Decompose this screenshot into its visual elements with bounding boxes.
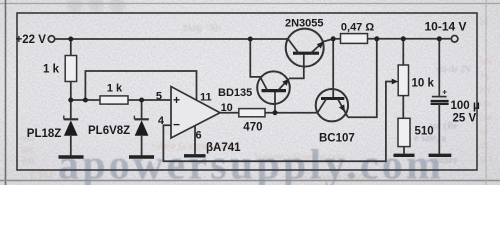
svg-text:βA741: βA741 [206,142,241,154]
svg-text:PL6V8Z: PL6V8Z [88,125,130,137]
ground (PL18Z) [59,155,84,158]
svg-text:5: 5 [156,91,162,103]
potentiometer 10k [398,65,408,96]
svg-text:PM.: PM. [22,156,37,166]
arrowhead pot wiper [392,79,399,85]
svg-text:510: 510 [415,126,434,138]
BC107 collector diagonal [318,99,327,113]
ground (capacitor) [429,154,452,157]
junction node: output / BC107 emitter [374,36,379,41]
svg-text:+22 V: +22 V [16,34,47,46]
zener PL6V8Z cathode bar [134,118,148,120]
faint round bleed blobs, top left [67,0,125,13]
2N3055 emitter diagonal [311,39,333,53]
svg-text:stă de 2V: stă de 2V [436,65,472,75]
output terminal 10-14V [451,36,458,43]
wire: BD135 emitter to 2N3055 base [289,53,304,78]
svg-text:BD135: BD135 [218,87,252,99]
svg-text:100 μ: 100 μ [451,100,480,112]
2N3055 collector diagonal [288,39,299,53]
svg-text:10: 10 [221,102,233,114]
wire: rail drop to pot [402,39,404,65]
junction node: output / pot [401,36,406,41]
input terminal +22V [48,36,54,42]
resistor 1k (series from +22V) [65,56,76,82]
BC107 base bar [321,97,344,100]
junction node: rail / R1 [68,37,73,42]
transistor Q2 BD135 circle [257,71,290,104]
wire: R1 to node A [70,82,72,101]
svg-text:+: + [173,93,180,107]
svg-text:−: − [173,118,180,132]
svg-text:în: în [479,140,489,151]
junction node: output / capacitor [437,36,442,41]
svg-text:11: 11 [200,91,212,103]
resistor 1k (to reference zener) [100,96,128,104]
wire: node A branch up to op-amp pin 11 [85,71,196,100]
wire: 470 to BC107 collector [265,112,318,114]
wire: BC107 emitter to output rail [348,39,377,118]
ground (op-amp pin 6) [184,154,206,157]
junction node A (18V) [68,98,73,103]
BD135 emitter [278,79,289,91]
zener PL18Z cathode bar [64,118,78,120]
junction node: pin11 feed [83,98,88,103]
arrowhead BC107 emitter [339,104,345,112]
scan page-edge lines [0,3,500,5]
zener PL6V8Z stem [141,100,143,119]
resistor 0,47 ohm [341,34,368,44]
transistor Q1 2N3055 circle [286,29,324,67]
zener PL18Z stem [70,100,72,119]
svg-text:PL18Z: PL18Z [27,128,62,140]
junction node: rail / BD135 collector [248,37,253,42]
schematic frame border [17,13,477,170]
arrowhead BD135 emitter [282,79,289,86]
svg-text:25 V: 25 V [453,113,477,125]
wire: pin 6 to ground [194,126,196,155]
junction node: BD135 base / 470 [273,110,278,115]
svg-text:4: 4 [158,115,165,127]
wire: capacitor to ground [438,104,440,154]
svg-text:1 k: 1 k [107,82,123,94]
svg-text:10-14 V: 10-14 V [425,20,467,34]
svg-text:10 k: 10 k [412,78,435,90]
resistor 470 [239,109,265,117]
wire: 510 to ground [403,147,405,154]
zener PL18Z anode triangle [64,120,78,136]
svg-text:blaţi ’Sb: blaţi ’Sb [183,22,221,34]
svg-text:2N3055: 2N3055 [285,17,324,29]
svg-text:6: 6 [195,130,201,142]
capacitor + mark [443,90,447,94]
zener PL6V8Z anode lead [141,136,143,156]
capacitor C1 100u plates [432,96,447,98]
svg-text:1 k: 1 k [43,64,60,76]
wire: 1k to pin 5 [128,99,171,101]
svg-text:ui: ui [480,126,488,137]
wire: BD135 base drop [274,91,276,113]
2N3055 base bar [293,52,319,55]
svg-text:BC107: BC107 [319,133,355,145]
wire: +22V rail to 2N3055 collector [55,38,288,40]
resistor 510 [398,118,410,146]
bleed-through ghost text from page reverse [20,17,493,183]
wire: BC107 base drop [332,39,334,99]
ground (510) [394,154,415,157]
junction node B (6.8V ref) [139,98,144,103]
arrowhead 2N3055 emitter [317,42,324,49]
wire: pin 4 feedback run to pot wiper [163,82,392,162]
wire: rail drop to capacitor [438,39,440,96]
wire: rail drop to BD135 collector [250,39,267,90]
zener PL18Z anode lead [70,136,72,156]
wire: rail drop to R1 [70,39,72,56]
BD135 base bar [262,89,287,92]
wire: emitter node to 0,47 [333,38,340,40]
op-amp U1 βA741 triangle [171,87,220,139]
wire: node A row [71,99,100,101]
svg-text:470: 470 [243,121,262,133]
svg-text:bl: bl [480,17,488,28]
svg-text:0,47 Ω: 0,47 Ω [341,21,374,33]
ground (PL6V8Z) [129,155,154,158]
wire: pot to 510 [402,96,404,119]
transistor Q3 BC107 circle [316,89,348,121]
wire: pin 10 output to 470 [220,112,239,114]
zener PL6V8Z anode triangle [135,120,149,136]
BC107 emitter diagonal [338,99,349,118]
junction node: 2N3055 emitter / 0,47 / BC107 base [331,36,336,41]
wire: output rail [368,38,452,40]
svg-text:mil.: mil. [21,145,35,155]
svg-text:apowersupply.com: apowersupply.com [58,143,441,186]
